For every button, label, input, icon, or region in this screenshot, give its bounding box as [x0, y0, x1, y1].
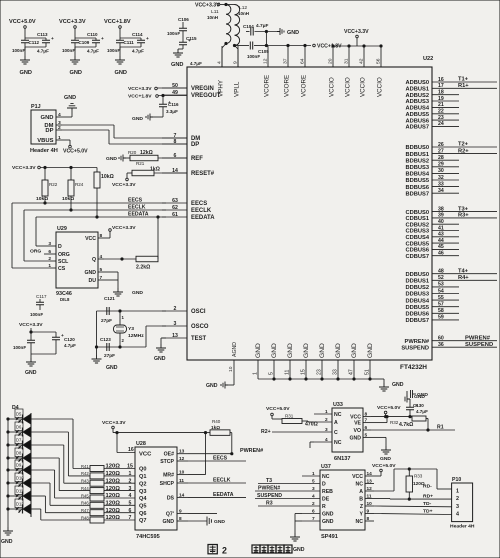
caption Figure 2	[208, 545, 292, 556]
svg-text:12: 12	[179, 456, 185, 462]
svg-text:20: 20	[328, 58, 334, 64]
pin 13 TEST	[162, 337, 187, 339]
pin 3 OSCO	[162, 325, 187, 327]
svg-text:100nF: 100nF	[30, 312, 43, 317]
pin 9 Y	[365, 513, 374, 515]
svg-text:4.7μF: 4.7μF	[256, 23, 269, 29]
ground bus wire	[258, 378, 370, 380]
svg-text:GND: GND	[367, 343, 374, 358]
svg-text:EEDATA: EEDATA	[191, 215, 215, 221]
resistor R31 470R	[271, 416, 273, 419]
wire	[31, 469, 55, 471]
svg-text:12: 12	[367, 486, 373, 492]
svg-text:27: 27	[438, 148, 444, 154]
svg-text:3: 3	[325, 427, 328, 433]
wire A	[374, 490, 394, 492]
pin 8 GND	[177, 520, 188, 522]
svg-text:R31: R31	[285, 414, 294, 419]
ground	[119, 47, 121, 56]
svg-text:DDBUS5: DDBUS5	[405, 305, 429, 311]
IC U33 6N137 body	[332, 408, 363, 452]
svg-text:R47: R47	[81, 508, 89, 513]
svg-text:CS: CS	[58, 266, 66, 272]
svg-text:RESET#: RESET#	[191, 171, 215, 177]
svg-text:100nF: 100nF	[247, 54, 260, 59]
wire	[112, 429, 114, 433]
svg-text:46: 46	[438, 251, 444, 257]
svg-text:EECLK: EECLK	[191, 208, 212, 214]
svg-text:VCORE: VCORE	[264, 75, 271, 97]
svg-text:C115: C115	[186, 36, 197, 41]
pin 3 D	[50, 245, 56, 247]
svg-text:CDBUS2: CDBUS2	[405, 222, 429, 228]
pin 55 DDBUS4	[432, 299, 459, 301]
pin 7 GND	[302, 520, 320, 522]
pin 4 VPHY	[221, 46, 223, 67]
svg-text:VCC+1.8V: VCC+1.8V	[317, 44, 342, 50]
svg-text:GND: GND	[335, 343, 342, 358]
svg-text:R20: R20	[128, 150, 137, 155]
pin 10 Z	[365, 505, 374, 507]
svg-text:EECLK: EECLK	[128, 205, 146, 211]
svg-text:31: 31	[344, 58, 350, 64]
svg-text:4: 4	[217, 61, 223, 64]
svg-text:4.7μF: 4.7μF	[190, 61, 202, 66]
svg-text:11: 11	[285, 370, 291, 375]
svg-text:VE: VE	[354, 421, 361, 427]
svg-text:D9: D9	[16, 462, 22, 467]
wire	[31, 495, 45, 497]
svg-text:ADBUS4: ADBUS4	[405, 106, 429, 112]
svg-text:58: 58	[438, 308, 444, 314]
pin 8 DP	[162, 143, 187, 145]
pin 45 CDBUS6	[432, 248, 459, 250]
svg-text:100nF: 100nF	[62, 48, 75, 53]
svg-text:4: 4	[456, 512, 459, 518]
svg-text:GND: GND	[351, 343, 358, 358]
svg-text:C120: C120	[64, 337, 75, 342]
svg-text:18: 18	[438, 90, 444, 96]
svg-text:GND: GND	[41, 115, 54, 121]
pin 56 VCCIO	[380, 46, 382, 67]
svg-text:2.2kΩ: 2.2kΩ	[136, 265, 150, 271]
svg-text:4.7μF: 4.7μF	[416, 409, 428, 414]
pin 5 D	[302, 483, 320, 485]
svg-text:24: 24	[438, 121, 444, 127]
svg-text:RD+: RD+	[423, 493, 433, 499]
svg-text:R2+: R2+	[261, 429, 271, 435]
svg-text:T2+: T2+	[458, 142, 469, 148]
ground	[290, 533, 300, 541]
wire GND	[295, 513, 302, 515]
net VCC+1.8V bus	[266, 45, 311, 47]
svg-text:EECS: EECS	[191, 201, 207, 207]
wire EECLK	[24, 209, 166, 211]
pin 61 EEDATA	[162, 216, 187, 218]
svg-text:VCC+5.0V: VCC+5.0V	[266, 406, 290, 412]
svg-text:CDBUS0: CDBUS0	[405, 210, 429, 216]
pin 17 ADBUS1	[432, 87, 497, 89]
svg-text:EECLK: EECLK	[213, 478, 231, 484]
wire	[116, 433, 118, 453]
svg-text:VCC+3.3V: VCC+3.3V	[102, 420, 126, 426]
ground	[67, 104, 77, 110]
pin 1 CS	[50, 267, 56, 269]
pin 5 GND	[363, 436, 371, 438]
resistor R32 4.7k	[410, 416, 412, 418]
svg-text:23: 23	[317, 369, 323, 375]
svg-text:BDBUS3: BDBUS3	[405, 165, 429, 171]
svg-text:GND: GND	[319, 343, 326, 358]
IC U29 93C46 body	[56, 232, 98, 288]
pin 1 NC	[314, 413, 332, 415]
svg-text:100nF: 100nF	[12, 48, 25, 53]
pin 7 DU	[98, 279, 104, 281]
svg-text:GND: GND	[25, 370, 37, 376]
svg-text:VCC+3.3V: VCC+3.3V	[344, 29, 369, 35]
svg-text:R42: R42	[81, 471, 89, 476]
wire	[119, 28, 121, 38]
svg-text:49: 49	[172, 90, 178, 96]
pin 33 BDBUS6	[432, 186, 459, 188]
svg-text:GND: GND	[106, 156, 117, 162]
svg-text:EECS: EECS	[128, 198, 143, 204]
svg-text:DS: DS	[167, 495, 175, 501]
pin 40 CDBUS2	[432, 223, 459, 225]
svg-text:3: 3	[129, 486, 132, 492]
svg-text:R45: R45	[81, 493, 89, 498]
svg-text:Y3: Y3	[128, 326, 134, 332]
svg-text:MR#: MR#	[163, 473, 174, 479]
svg-text:D: D	[58, 244, 62, 250]
svg-text:ADBUS5: ADBUS5	[405, 112, 429, 118]
svg-text:VREGIN: VREGIN	[191, 86, 214, 92]
wire	[230, 432, 232, 434]
wire EEDATA	[36, 216, 166, 218]
svg-text:GND: GND	[115, 70, 127, 76]
svg-text:R3+: R3+	[458, 213, 469, 219]
pin 6 ORG	[50, 253, 56, 255]
wire	[31, 457, 59, 459]
svg-text:R46: R46	[81, 501, 89, 506]
wire DP	[62, 129, 109, 131]
svg-text:TD+: TD+	[423, 509, 433, 515]
svg-text:PWREN#: PWREN#	[405, 339, 430, 345]
svg-text:R1: R1	[437, 425, 444, 431]
svg-text:R: R	[322, 504, 326, 510]
svg-text:REB: REB	[322, 489, 333, 495]
svg-text:OSCI: OSCI	[191, 309, 206, 315]
svg-text:60: 60	[438, 336, 444, 342]
svg-text:BDBUS5: BDBUS5	[405, 178, 429, 184]
svg-text:13: 13	[172, 333, 178, 339]
svg-text:10: 10	[228, 366, 234, 372]
svg-text:1: 1	[129, 471, 132, 477]
capacitor C119 100nF	[27, 340, 35, 342]
wire GND	[371, 436, 386, 438]
svg-text:4: 4	[325, 437, 328, 443]
svg-text:Y: Y	[360, 512, 364, 518]
pin 43 CDBUS4	[432, 236, 459, 238]
capacitor C114 4.7uF	[137, 40, 145, 42]
svg-text:R22: R22	[49, 182, 58, 187]
pin 10 MR#	[177, 474, 188, 476]
svg-text:9: 9	[179, 508, 182, 514]
resistor R25 2.2k	[136, 256, 158, 262]
svg-text:VCCIO: VCCIO	[377, 77, 384, 97]
svg-text:P1J: P1J	[31, 104, 41, 110]
svg-text:GND: GND	[322, 512, 334, 518]
wire	[255, 498, 302, 500]
svg-text:EEDATA: EEDATA	[128, 212, 149, 218]
svg-text:47: 47	[349, 369, 355, 375]
ground	[24, 47, 26, 56]
svg-text:R1+: R1+	[458, 83, 469, 89]
wire LED anode bus	[30, 413, 32, 517]
crystal Y3 12MHz	[119, 311, 121, 325]
svg-text:OSCO: OSCO	[191, 324, 209, 330]
svg-text:8: 8	[367, 516, 370, 522]
pin 33 GND	[337, 360, 339, 379]
svg-text:1: 1	[312, 471, 315, 477]
wire OE#	[188, 453, 232, 455]
svg-text:GND: GND	[206, 383, 218, 389]
capacitor C122 27pF	[97, 346, 121, 348]
svg-text:GND: GND	[64, 95, 76, 101]
ground	[3, 527, 13, 535]
svg-text:17: 17	[438, 83, 444, 89]
svg-text:9: 9	[233, 61, 239, 64]
svg-text:74HC595: 74HC595	[136, 534, 160, 540]
svg-text:64: 64	[300, 58, 306, 64]
svg-text:3: 3	[312, 486, 315, 492]
wire	[31, 431, 68, 433]
svg-text:10: 10	[367, 501, 373, 507]
pin 2 R	[302, 505, 320, 507]
svg-text:43: 43	[438, 232, 444, 238]
capacitor C104 4.7uF	[246, 31, 250, 33]
ground	[188, 520, 207, 522]
svg-text:5: 5	[269, 372, 275, 375]
svg-text:14: 14	[367, 471, 373, 477]
svg-text:DDBUS3: DDBUS3	[405, 292, 429, 298]
wire GND	[62, 116, 72, 118]
svg-text:NC: NC	[334, 412, 342, 418]
svg-text:P10: P10	[452, 477, 461, 483]
svg-text:CDBUS7: CDBUS7	[405, 254, 429, 260]
svg-text:GND: GND	[322, 519, 334, 525]
pin 14 DS	[177, 496, 188, 498]
svg-text:VCC+3.3V: VCC+3.3V	[112, 225, 136, 231]
wire OSCO	[120, 346, 146, 348]
wire EEDATA	[188, 496, 246, 498]
wire VO	[371, 429, 455, 431]
svg-text:VCORE: VCORE	[284, 75, 291, 97]
svg-text:6: 6	[312, 509, 315, 515]
svg-text:Q7': Q7'	[166, 511, 174, 517]
IC U22 FT4232H body	[187, 67, 432, 360]
pin 52 DDBUS1	[432, 279, 497, 281]
pin 64 VCORE	[304, 46, 306, 67]
svg-text:Q2: Q2	[139, 481, 146, 487]
svg-text:T3+: T3+	[458, 206, 469, 212]
svg-text:52: 52	[438, 275, 444, 281]
pin 7 DM	[162, 137, 187, 139]
svg-text:2: 2	[48, 256, 51, 262]
capacitor C105 100nF	[235, 45, 250, 47]
pin 37 VCORE	[287, 46, 289, 67]
svg-text:15: 15	[301, 369, 307, 375]
svg-text:57: 57	[438, 302, 444, 308]
svg-text:33: 33	[333, 369, 339, 375]
svg-text:10kΩ: 10kΩ	[101, 174, 114, 180]
pin 38 CDBUS0	[432, 211, 497, 213]
svg-text:33: 33	[438, 181, 444, 187]
svg-text:+: +	[101, 37, 104, 42]
wire	[74, 28, 76, 38]
wire EECS	[188, 460, 246, 462]
svg-text:VBUS: VBUS	[37, 138, 53, 144]
svg-text:SCL: SCL	[58, 259, 68, 265]
LED D10	[15, 473, 23, 482]
svg-text:13: 13	[179, 449, 185, 455]
wire	[31, 418, 73, 420]
svg-text:3: 3	[48, 241, 51, 247]
svg-text:D4: D4	[12, 405, 19, 411]
svg-text:+: +	[146, 37, 149, 42]
svg-text:DDBUS7: DDBUS7	[405, 318, 429, 324]
wire	[104, 271, 118, 273]
wire	[24, 28, 26, 38]
pin 3 REB	[302, 490, 320, 492]
svg-text:DDBUS4: DDBUS4	[405, 298, 429, 304]
pin 8 NC	[365, 520, 374, 522]
svg-text:A: A	[359, 489, 363, 495]
svg-text:8: 8	[365, 412, 368, 418]
svg-text:C121: C121	[104, 296, 115, 301]
svg-text:4.7μF: 4.7μF	[132, 49, 144, 54]
svg-text:GND: GND	[350, 435, 362, 441]
pin 31 VCCIO	[348, 46, 350, 67]
svg-text:36: 36	[438, 342, 444, 348]
pin 39 CDBUS1	[432, 217, 497, 219]
pin 13 OE#	[177, 453, 188, 455]
svg-text:VCC+3.3V: VCC+3.3V	[59, 19, 86, 25]
svg-text:GND: GND	[287, 30, 299, 36]
svg-text:VCC: VCC	[139, 452, 152, 458]
svg-text:13: 13	[367, 479, 373, 485]
svg-text:6: 6	[365, 425, 368, 431]
svg-text:GND: GND	[1, 539, 13, 545]
pin 28 BDBUS2	[432, 159, 459, 161]
svg-text:BDBUS0: BDBUS0	[405, 145, 429, 151]
svg-text:8: 8	[100, 233, 103, 239]
svg-text:D6: D6	[16, 424, 22, 429]
pin 6 VO	[363, 429, 371, 431]
pin 48 DDBUS0	[432, 273, 497, 275]
svg-text:R33: R33	[414, 474, 423, 479]
pin 23 GND	[321, 360, 323, 379]
svg-text:C113: C113	[37, 32, 48, 37]
svg-text:AGND: AGND	[232, 342, 238, 357]
svg-text:D7: D7	[16, 437, 22, 442]
svg-text:VCC: VCC	[352, 474, 363, 480]
svg-text:GND: GND	[271, 343, 278, 358]
svg-text:CDBUS4: CDBUS4	[405, 235, 429, 241]
svg-text:GND: GND	[85, 270, 97, 276]
svg-text:BDBUS7: BDBUS7	[405, 191, 429, 197]
pin 46 CDBUS7	[432, 255, 459, 257]
svg-text:7: 7	[129, 515, 132, 521]
svg-text:11: 11	[179, 478, 184, 484]
svg-text:C106: C106	[178, 17, 189, 22]
svg-text:SHCP: SHCP	[160, 481, 175, 487]
svg-text:R48: R48	[81, 515, 89, 520]
svg-text:34: 34	[438, 188, 444, 194]
svg-text:EEDATA: EEDATA	[213, 492, 234, 498]
svg-text:4: 4	[100, 254, 103, 260]
svg-text:PWREN#: PWREN#	[465, 335, 491, 341]
capacitor AGND filter	[407, 390, 413, 398]
pin 51 GND	[369, 360, 371, 379]
IC U28 74HC595 body	[135, 447, 177, 530]
wire LED rail	[7, 419, 9, 527]
svg-text:U37: U37	[321, 464, 331, 470]
svg-text:C130: C130	[413, 403, 424, 408]
svg-text:6: 6	[129, 508, 132, 514]
svg-text:2: 2	[174, 306, 177, 312]
svg-text:59: 59	[438, 315, 444, 321]
svg-text:DDBUS6: DDBUS6	[405, 312, 429, 318]
pin 54 DDBUS3	[432, 293, 459, 295]
svg-text:22: 22	[438, 109, 444, 115]
pin 11 GND	[289, 360, 291, 379]
svg-text:VCCIO: VCCIO	[329, 77, 336, 97]
svg-text:11: 11	[367, 494, 372, 500]
svg-text:GND: GND	[163, 519, 175, 525]
IC U37 SP491 body	[320, 470, 365, 530]
net VCC+5.0V	[69, 145, 72, 148]
wire DM	[62, 124, 114, 126]
capacitor C111 100nF	[119, 38, 121, 40]
svg-text:BDBUS1: BDBUS1	[405, 152, 429, 158]
resistor R22 10k	[44, 168, 46, 181]
svg-text:B: B	[359, 497, 363, 503]
pin 6 GND	[302, 513, 320, 515]
pin 60 PWREN#	[432, 340, 497, 342]
svg-text:28: 28	[438, 155, 444, 161]
svg-text:5: 5	[365, 432, 368, 438]
net VCC+3.3V	[126, 178, 129, 181]
pin 12 VCORE	[267, 46, 269, 67]
pin 58 DDBUS6	[432, 312, 459, 314]
wire VE	[371, 422, 387, 424]
wire	[265, 32, 267, 46]
pin 1 GND	[257, 360, 259, 379]
svg-text:4.7μF: 4.7μF	[64, 343, 76, 348]
svg-text:BDBUS6: BDBUS6	[405, 185, 429, 191]
svg-text:5: 5	[129, 501, 132, 507]
ground	[146, 114, 153, 121]
svg-text:EECS: EECS	[213, 456, 228, 462]
svg-text:38: 38	[438, 206, 444, 212]
svg-text:CDBUS3: CDBUS3	[405, 229, 429, 235]
pin 41 CDBUS3	[432, 230, 459, 232]
svg-text:GND: GND	[132, 290, 143, 296]
svg-text:GND: GND	[20, 70, 32, 76]
wire	[258, 505, 302, 507]
ground	[405, 396, 410, 403]
